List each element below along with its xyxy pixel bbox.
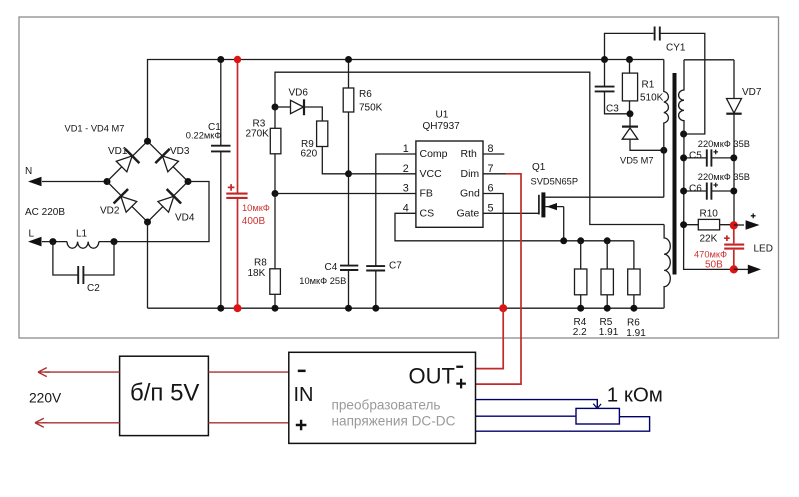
resistor R4 (575, 269, 587, 295)
label R6 sense (627, 318, 640, 329)
svg-text:18K: 18K (248, 268, 266, 279)
label C6 value 220mkF 35V (698, 172, 750, 182)
wire C6 row (684, 190, 734, 192)
node CY1 secondary junction (680, 131, 687, 138)
svg-text:R8: R8 (254, 258, 267, 269)
wire R3 leads (274, 107, 276, 194)
svg-text:C4: C4 (325, 262, 338, 273)
label 400V (red) (242, 216, 266, 227)
node red rail top (234, 56, 241, 63)
svg-text:2.2: 2.2 (573, 327, 587, 338)
wire L line (42, 241, 67, 243)
arrow 220V top (38, 368, 50, 377)
wire CY1 top link (605, 33, 705, 134)
label R5 (600, 317, 613, 328)
node R5 bottom (604, 305, 611, 312)
svg-text:напряжения DC-DC: напряжения DC-DC (332, 413, 456, 428)
svg-text:SVD5N65P: SVD5N65P (531, 177, 579, 187)
svg-text:5: 5 (488, 202, 494, 214)
svg-text:750K: 750K (359, 103, 383, 114)
diode VD5 (622, 114, 664, 151)
svg-text:б/п 5V: б/п 5V (130, 380, 199, 407)
wire R5 leads (606, 241, 608, 308)
node CY1 left (601, 56, 608, 63)
node C1 bottom (217, 305, 224, 312)
capacitor 470mkF 50V (red) (724, 245, 744, 249)
svg-text:220мкФ 35В: 220мкФ 35В (698, 139, 750, 149)
node C5 right (730, 154, 737, 161)
label R6 (359, 89, 372, 100)
node N-bridge junction (104, 178, 111, 185)
pin 8 number (488, 143, 494, 155)
label QH7937 (423, 121, 461, 132)
resistor R5 (601, 269, 613, 295)
wire VCC line to U1 pin2 (349, 173, 416, 175)
wire pin6 Gnd to GND rail (483, 194, 503, 309)
svg-text:CY1: CY1 (666, 43, 686, 54)
label R5 value 1.91 (599, 327, 619, 338)
label VD3 (170, 146, 190, 157)
label R10 (700, 209, 719, 220)
node C4 bottom (345, 305, 352, 312)
node red rail bottom (234, 304, 242, 312)
svg-text:AC 220В: AC 220В (25, 207, 65, 218)
label C4 value 10mkF 25V (299, 276, 346, 286)
node C2 left junction (49, 238, 56, 245)
transistor Q1 gate bar (538, 195, 540, 215)
label C4 (325, 262, 338, 273)
svg-text:22K: 22K (700, 234, 718, 245)
capacitor C4 (340, 266, 358, 270)
svg-text:Rth: Rth (461, 148, 478, 160)
svg-text:FB: FB (420, 188, 433, 200)
wire VD6 cathode to R9 (304, 107, 323, 121)
node C6 left (680, 188, 687, 195)
svg-text:LED: LED (754, 244, 773, 255)
wire R10 row (684, 224, 734, 226)
node R5 top (604, 237, 611, 244)
svg-text:Dim: Dim (461, 168, 480, 180)
label VD6 (289, 87, 309, 98)
node R8 bottom (272, 305, 279, 312)
label VD1 (108, 146, 128, 157)
svg-text:470мкФ: 470мкФ (694, 249, 727, 259)
svg-text:IN: IN (294, 384, 314, 406)
svg-text:VD7: VD7 (742, 87, 762, 98)
svg-text:10мкФ 25В: 10мкФ 25В (299, 276, 346, 286)
node R1-VD5 junction (627, 110, 634, 117)
wire pot right loop (navy) (476, 417, 650, 432)
polarity plus of C6 (713, 183, 718, 188)
wire pin8 Rth stub (483, 153, 504, 155)
svg-text:Q1: Q1 (532, 162, 546, 173)
diode VD7 (726, 60, 741, 226)
wire Q1 drain to primary (545, 196, 663, 198)
label C2 (87, 283, 100, 294)
node bridge right (185, 178, 192, 185)
svg-text:VD6: VD6 (289, 87, 309, 98)
pin name Rth (461, 148, 478, 160)
wire pot wiper (navy) (476, 400, 598, 408)
pin name VCC (420, 168, 443, 180)
node output plus (red) (730, 221, 738, 229)
wire secondary top to VD7 (684, 59, 734, 61)
label R1 value 510K (640, 93, 664, 104)
diode VD4 (156, 189, 181, 214)
label R3 value 270K (246, 129, 270, 140)
potentiometer 1 kOhm body (576, 408, 619, 424)
wire pot left (navy) (476, 415, 576, 417)
resistor R9 (317, 121, 328, 147)
label AC 220B (25, 207, 65, 218)
diode VD6 (291, 99, 305, 115)
label R9 value 620 (301, 149, 318, 160)
label R10 value 22K (700, 234, 718, 245)
capacitor C7 (366, 266, 385, 270)
label VD7 (742, 87, 762, 98)
resistor R6 750K (343, 88, 354, 112)
label R9 (301, 139, 314, 150)
wire FB line to U1 pin3 (275, 193, 416, 195)
polarity plus of 400V cap (228, 184, 235, 191)
transistor Q1 body-diode arrow (545, 203, 563, 210)
svg-text:VD5 M7: VD5 M7 (620, 155, 654, 165)
pin name Gnd (460, 188, 480, 200)
box b/p 5V power supply (120, 356, 209, 435)
label C1 value 0.22mkF (186, 130, 222, 140)
pin 4 number (403, 202, 409, 214)
resistor R1 (622, 73, 637, 101)
label R3 (253, 119, 266, 130)
node VCC junction (345, 170, 352, 177)
wire pin7 Dim stub (483, 173, 506, 175)
node C6 right (730, 188, 737, 195)
label Q1 (532, 162, 546, 173)
pin name CS (420, 208, 435, 220)
svg-text:Comp: Comp (420, 148, 448, 160)
svg-text:0.22мкФ: 0.22мкФ (186, 130, 222, 140)
label OUT minus (456, 366, 463, 368)
wire output cap branch (red) (733, 225, 735, 269)
label L (29, 228, 35, 239)
polarity plus of C5 (713, 150, 718, 155)
svg-text:R10: R10 (700, 209, 719, 220)
label 50V (red) (705, 259, 723, 270)
node FB junction (272, 190, 279, 197)
pin 5 number (488, 202, 494, 214)
svg-text:6: 6 (488, 183, 494, 195)
arrow pot wiper (593, 404, 601, 409)
capacitor C2 (78, 266, 83, 284)
svg-text:C6: C6 (689, 184, 702, 195)
svg-text:C3: C3 (606, 104, 619, 115)
diode bridge VD1-VD4 outline (107, 141, 188, 222)
node C2 right junction (111, 238, 118, 245)
label R4 (574, 317, 587, 328)
svg-text:CS: CS (420, 208, 435, 220)
resistor R6 (sense) (628, 269, 640, 295)
node VD6-R3 junction (272, 104, 279, 111)
wire C1 branch (220, 60, 222, 309)
wire R4 leads (580, 241, 582, 308)
label VD2 (100, 206, 120, 217)
svg-text:220V: 220V (29, 390, 62, 405)
wire bridge bottom to GND rail (147, 222, 149, 308)
label R8 value 18K (248, 268, 266, 279)
label R1 (642, 80, 655, 91)
capacitor C5 (707, 149, 712, 166)
node R4 top (577, 237, 584, 244)
label N (25, 166, 32, 177)
wire C5 row (684, 157, 734, 159)
schematic frame (19, 17, 779, 338)
arrow 220V bottom (35, 418, 47, 427)
svg-text:QH7937: QH7937 (423, 121, 461, 132)
label 1 kOm (607, 383, 663, 406)
label IN minus (298, 370, 306, 373)
label C6 (689, 184, 702, 195)
transformer primary winding (664, 60, 669, 198)
wire top HV rail (148, 60, 664, 142)
wire C3 branch (605, 60, 631, 114)
label U1 (436, 110, 449, 121)
wire OUT- return (red) (476, 308, 504, 368)
wire Dim to OUT+ (red) (476, 174, 522, 384)
label IN plus (296, 420, 307, 431)
label preobrazovatel (gray) (332, 398, 441, 413)
wire VD6 anode (275, 106, 291, 108)
capacitor CY1 (655, 27, 660, 41)
svg-text:L: L (29, 228, 35, 239)
svg-text:VD1 - VD4 M7: VD1 - VD4 M7 (65, 124, 125, 134)
svg-text:C7: C7 (389, 261, 402, 272)
label LED (754, 244, 773, 255)
wire pin4 CS loop to source (395, 213, 634, 241)
node R1 top (626, 56, 633, 63)
label C5 (689, 151, 702, 162)
label R4 value 2.2 (573, 327, 587, 338)
label OUT (409, 364, 455, 389)
label b/p 5V (130, 380, 199, 407)
svg-text:Gnd: Gnd (460, 188, 480, 200)
label R6 value 750K (359, 103, 383, 114)
wire GND bottom rail (148, 307, 664, 309)
capacitor 10mkF 400V (red electrolytic) (226, 194, 247, 198)
svg-text:7: 7 (488, 163, 494, 175)
wire aux winding rail (275, 72, 664, 224)
resistor R3 (270, 128, 281, 154)
node bridge top (144, 138, 151, 145)
wire R6 branch (348, 60, 350, 309)
svg-text:N: N (25, 166, 32, 177)
svg-text:620: 620 (301, 149, 318, 160)
transformer core (673, 73, 677, 275)
pin 1 number (403, 143, 409, 155)
node output minus (red) (730, 265, 738, 273)
svg-text:220мкФ 35В: 220мкФ 35В (698, 172, 750, 182)
svg-text:4: 4 (403, 202, 409, 214)
arrow LED output (748, 265, 761, 275)
wire R6b leads (633, 241, 635, 308)
svg-text:1: 1 (403, 143, 409, 155)
label R8 (254, 258, 267, 269)
svg-text:C5: C5 (689, 151, 702, 162)
label SVD5N65P (531, 177, 579, 187)
svg-text:VD1: VD1 (108, 146, 128, 157)
svg-text:1.91: 1.91 (599, 327, 619, 338)
svg-text:VD2: VD2 (100, 206, 120, 217)
svg-text:R1: R1 (642, 80, 655, 91)
svg-text:10мкФ: 10мкФ (242, 203, 270, 213)
pin name Dim (461, 168, 480, 180)
pin 6 number (488, 183, 494, 195)
wire Q1 source drop (563, 207, 565, 241)
node bridge bottom (144, 219, 151, 226)
wire output plus lead (734, 224, 744, 226)
svg-text:R6: R6 (359, 89, 372, 100)
capacitor C6 (707, 183, 712, 200)
wire R1 leads (629, 60, 631, 114)
transistor Q1 channel bar (541, 192, 545, 217)
pin 7 number (488, 163, 494, 175)
polarity plus of 470mkF cap (724, 235, 730, 241)
transformer aux winding (664, 225, 670, 309)
capacitor C1 (211, 146, 231, 152)
svg-text:L1: L1 (76, 229, 88, 240)
svg-text:8: 8 (488, 143, 494, 155)
wire 5V to IN+ (red) (208, 422, 288, 424)
label plus terminal (751, 213, 756, 218)
label C3 (606, 104, 619, 115)
svg-text:1.91: 1.91 (626, 328, 646, 339)
wire bulk electrolytic branch (red) (237, 60, 239, 309)
svg-text:OUT: OUT (409, 364, 455, 389)
label C7 (389, 261, 402, 272)
svg-text:3: 3 (403, 183, 409, 195)
node C1 top (217, 56, 224, 63)
node C7 bottom (372, 305, 379, 312)
svg-text:VD3: VD3 (170, 146, 190, 157)
label L1 (76, 229, 88, 240)
svg-text:1 кОм: 1 кОм (607, 383, 663, 406)
wire LED lead (734, 268, 748, 270)
svg-text:50В: 50В (705, 259, 723, 270)
wire R9 to VCC (322, 147, 348, 174)
wire N line (42, 181, 107, 183)
wire 220V bottom (red) (42, 422, 120, 424)
node C5 left (680, 154, 687, 161)
label VD1 - VD4 M7 (65, 124, 125, 134)
pin 3 number (403, 183, 409, 195)
svg-text:400В: 400В (242, 216, 266, 227)
svg-text:C2: C2 (87, 283, 100, 294)
label IN (294, 384, 314, 406)
label C1 (208, 122, 221, 133)
label napryazheniya DC-DC (gray) (332, 413, 456, 428)
node source junction (560, 237, 567, 244)
node R4 bottom (577, 305, 584, 312)
node OUT- on GND rail (red) (499, 304, 507, 312)
pin name Comp (420, 148, 448, 160)
svg-text:510K: 510K (640, 93, 664, 104)
wire 5V to IN- (red) (208, 371, 288, 373)
wire C2 right branch (84, 242, 114, 275)
resistor R10 (698, 219, 719, 230)
capacitor C3 (595, 87, 615, 92)
arrow output plus (746, 220, 760, 230)
diode VD3 (155, 149, 180, 174)
node R6 bottom (630, 305, 637, 312)
inductor L1 (67, 242, 99, 249)
diode VD2 (114, 189, 139, 214)
node VD5-primary junction (660, 147, 667, 154)
pin name Gate (457, 208, 480, 220)
svg-text:Gate: Gate (457, 208, 480, 220)
box DC-DC converter (289, 352, 476, 443)
arrow N terminal (28, 177, 42, 187)
svg-text:270K: 270K (246, 129, 270, 140)
wire R8 leads (274, 194, 276, 309)
arrow L terminal (28, 237, 42, 247)
wire pin5 Gate line (483, 212, 539, 214)
label C5 value 220mkF 35V (698, 139, 750, 149)
svg-text:2: 2 (403, 163, 409, 175)
pin name FB (420, 188, 433, 200)
label R6 value 1.91 (626, 328, 646, 339)
svg-text:U1: U1 (436, 110, 449, 121)
IC U1 QH7937 box (416, 141, 483, 227)
node R10 left (680, 221, 687, 228)
svg-text:преобразователь: преобразователь (332, 398, 441, 413)
wire 220V top (red) (45, 371, 120, 373)
diode VD1 (114, 149, 139, 174)
label VD5 M7 (620, 155, 654, 165)
label 220V (29, 390, 62, 405)
wire Comp to C7 (376, 154, 416, 308)
label 10mkF (red) (242, 203, 270, 213)
label VD4 (175, 213, 195, 224)
label CY1 (666, 43, 686, 54)
resistor R8 (270, 269, 281, 295)
wire L1 to bridge right (99, 182, 209, 242)
label 470mkF (red) (694, 249, 727, 259)
pin 2 number (403, 163, 409, 175)
svg-text:VD4: VD4 (175, 213, 195, 224)
transformer secondary winding (679, 60, 734, 270)
node R6 top (345, 56, 352, 63)
wire C2 left branch (53, 242, 78, 275)
svg-text:VCC: VCC (420, 168, 443, 180)
label OUT plus (456, 379, 466, 389)
